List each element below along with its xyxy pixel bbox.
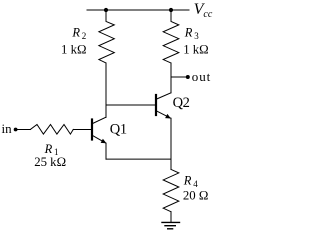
wire Vcc top rail xyxy=(87,9,189,11)
svg-text:1 kΩ: 1 kΩ xyxy=(61,42,87,56)
node in label xyxy=(2,121,13,136)
wire emitter rail xyxy=(106,158,171,160)
wire Q1 emitter down xyxy=(105,143,107,159)
svg-text:1 kΩ: 1 kΩ xyxy=(183,42,209,56)
R1 value label xyxy=(34,155,66,169)
resistor R4 xyxy=(163,169,179,211)
resistor R1 xyxy=(30,125,73,135)
R4 value label xyxy=(183,188,209,202)
svg-text:R: R xyxy=(44,142,53,156)
node Vcc label xyxy=(194,1,213,20)
wire out tap xyxy=(171,76,188,78)
svg-text:Q1: Q1 xyxy=(110,122,127,138)
wire R3 bottom to Q2 collector xyxy=(170,63,172,93)
wire in to R1 xyxy=(16,129,31,131)
wire R1 to Q1 base xyxy=(73,129,92,131)
svg-text:in: in xyxy=(2,121,13,136)
node out label xyxy=(192,69,211,84)
R2 label xyxy=(71,25,86,40)
svg-text:out: out xyxy=(192,69,211,84)
wire Q2 emitter to R4 xyxy=(170,118,172,169)
svg-text:cc: cc xyxy=(203,9,212,20)
ground xyxy=(162,222,180,228)
svg-text:3: 3 xyxy=(194,31,199,41)
svg-text:20 Ω: 20 Ω xyxy=(183,188,209,202)
Q1 label xyxy=(110,122,127,138)
R1 label xyxy=(44,142,59,157)
in terminal dot xyxy=(14,128,18,132)
svg-text:25 kΩ: 25 kΩ xyxy=(34,155,66,169)
svg-text:R: R xyxy=(183,174,192,188)
svg-text:R: R xyxy=(71,25,80,39)
Q2 label xyxy=(173,95,190,111)
wire R4 to ground xyxy=(170,212,172,223)
junction dot rail/R2 xyxy=(104,8,108,12)
R3 label xyxy=(184,25,199,40)
R4 label xyxy=(183,174,198,189)
R2 value label xyxy=(61,42,87,56)
R3 value label xyxy=(183,42,209,56)
transistor Q2 xyxy=(156,93,171,119)
out terminal dot xyxy=(186,75,190,79)
resistor R2 xyxy=(99,10,114,63)
wire Q1 collector to Q2 base xyxy=(106,104,156,106)
wire R2 bottom to Q1 collector xyxy=(105,63,107,117)
svg-text:Q2: Q2 xyxy=(173,95,190,111)
svg-text:2: 2 xyxy=(82,31,87,41)
junction dot rail/R3 xyxy=(169,8,173,12)
transistor Q1 xyxy=(92,117,106,143)
svg-text:R: R xyxy=(184,25,193,39)
resistor R3 xyxy=(163,10,179,63)
